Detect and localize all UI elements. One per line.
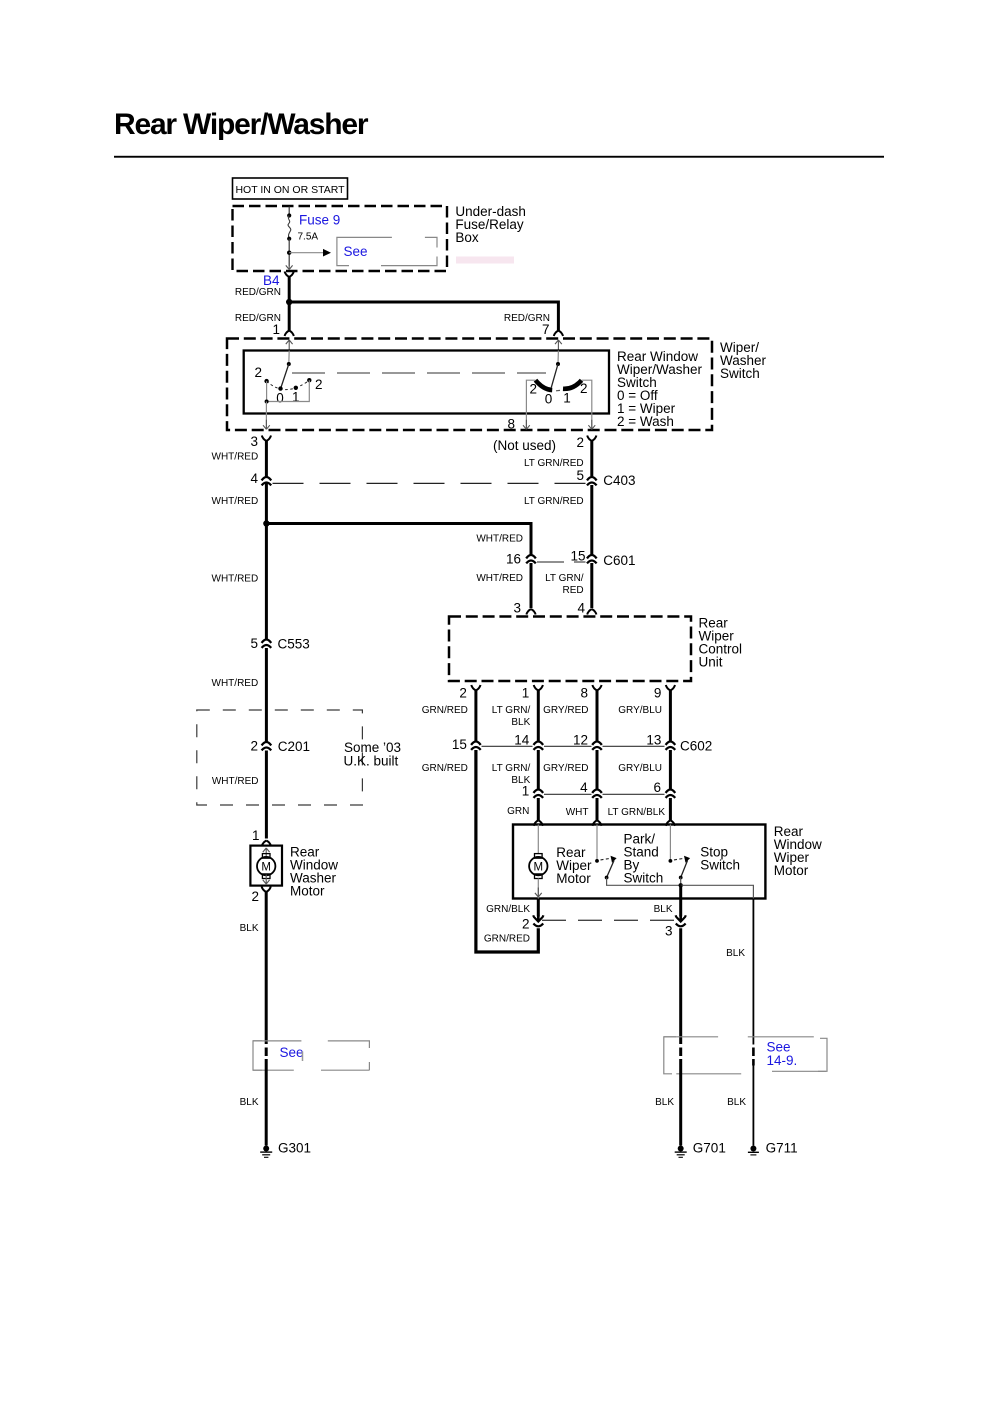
svg-text:WHT/RED: WHT/RED (476, 573, 523, 584)
entry horns control pin 3 (526, 609, 535, 615)
ground G711 (748, 1146, 759, 1155)
switch inner box (244, 351, 609, 414)
C403 dashed joint line (273, 482, 587, 484)
ground G701 (675, 1146, 687, 1158)
svg-text:C201: C201 (278, 739, 310, 754)
wire RED/GRN: B4 down to junction (288, 277, 291, 303)
svg-text:14: 14 (514, 733, 530, 748)
rear window washer motor box (250, 846, 282, 886)
wire GRN/RED C602 down (476, 750, 538, 952)
wire BLK washer motor to ground (265, 891, 268, 1044)
Some '03 UK dashed box (197, 710, 363, 805)
wire GRY/RED pin8 to C602 (596, 690, 599, 741)
svg-text:1: 1 (522, 686, 530, 701)
svg-text:1: 1 (272, 322, 280, 337)
wire GRN/RED pin2 to C602 (474, 690, 477, 741)
wire BLK dashed through see box (265, 1048, 268, 1066)
wiper contact arc left (thick) (536, 380, 553, 390)
svg-text:15: 15 (452, 737, 467, 752)
svg-text:Switch: Switch (720, 366, 760, 381)
svg-text:LT GRN/BLK: LT GRN/BLK (608, 807, 666, 818)
entry arrow pin 7 (555, 340, 562, 350)
svg-text:8: 8 (580, 686, 588, 701)
wiper motor M2 symbol (535, 854, 543, 859)
connector arrow out of fuse box (286, 260, 293, 270)
svg-text:Box: Box (455, 230, 479, 245)
wire GRY/RED C602 down (596, 750, 599, 792)
fuse F9 top terminal dot (287, 213, 291, 217)
svg-text:GRY/BLU: GRY/BLU (618, 705, 662, 716)
wire GRN to motor (537, 798, 540, 820)
wire BLK right branch to G711 (752, 899, 754, 1045)
svg-text:GRY/RED: GRY/RED (543, 705, 588, 716)
washer switch contact arc (dashed) (267, 380, 310, 389)
grey fragment (302, 1052, 304, 1062)
svg-text:M: M (261, 861, 271, 873)
stop switch output wire (680, 878, 682, 886)
wire: fuse to B4 (288, 239, 290, 267)
svg-text:GRY/BLU: GRY/BLU (618, 763, 662, 774)
wire WHT/RED C601 to control unit pin 3 (530, 563, 533, 608)
wire GRY/BLU pin9 to C602 (669, 690, 672, 741)
wire BLK dashed through see box (G701) (679, 1048, 682, 1066)
connector pair 3 (motor) (676, 915, 686, 926)
washer contact 0 dot (278, 386, 282, 390)
entry horns control pin 4 (587, 609, 596, 615)
connector horns pin 7 (554, 331, 563, 337)
exit horns washer motor pin 2 (262, 887, 271, 893)
wire LT GRN/BLK to stop switch (669, 798, 672, 820)
wiper switch pivot dot (556, 362, 560, 366)
svg-text:BLK: BLK (727, 1097, 746, 1108)
svg-text:WHT: WHT (566, 807, 589, 818)
svg-text:15: 15 (570, 549, 585, 564)
svg-text:2: 2 (580, 381, 588, 396)
svg-text:0: 0 (545, 392, 553, 407)
wire WHT/RED C201 to washer motor (265, 751, 268, 839)
rear window wiper motor box (513, 825, 765, 899)
svg-text:RED: RED (562, 585, 583, 596)
svg-text:2: 2 (251, 889, 259, 904)
title rule (114, 156, 884, 158)
svg-text:GRN/RED: GRN/RED (422, 705, 468, 716)
svg-text:WHT/RED: WHT/RED (212, 574, 259, 585)
washer contact 2 left dot (264, 379, 268, 383)
svg-text:1: 1 (522, 784, 530, 799)
wire LT GRN/BLK C602 to motor connector (537, 750, 540, 792)
wire LT GRN/RED C403 to C601 (590, 485, 593, 555)
washer motor internal arrow bottom (263, 875, 270, 885)
svg-text:C602: C602 (680, 739, 712, 754)
svg-text:2: 2 (254, 365, 262, 380)
wire LT GRN/RED C601 to control unit pin 4 (590, 563, 593, 608)
svg-text:C601: C601 (603, 553, 635, 568)
svg-text:4: 4 (580, 780, 588, 795)
svg-text:4: 4 (250, 471, 258, 486)
junction node dot (286, 299, 292, 305)
C601 joint line (537, 561, 586, 563)
wire to right exit (681, 885, 754, 898)
C602 joint lines (482, 745, 665, 747)
svg-text:Fuse 9: Fuse 9 (299, 213, 340, 228)
wire LT GRN/RED pin2 to C403 (590, 441, 593, 477)
svg-text:See: See (344, 244, 368, 259)
connector C601 left chevrons (526, 555, 536, 564)
wiper/washer switch outer dashed box (227, 339, 712, 431)
exit arrow pin 2 (588, 420, 595, 430)
svg-text:LT GRN/: LT GRN/ (545, 573, 584, 584)
wire WHT/RED branch to control unit pin 3 (266, 524, 531, 555)
svg-text:2: 2 (529, 382, 537, 397)
svg-text:U.K. built: U.K. built (344, 754, 399, 769)
connector C403 right chevrons (587, 477, 597, 486)
washer motor internal arrow top (263, 848, 270, 858)
wiper switch feed wire (557, 351, 559, 365)
svg-text:BLK: BLK (654, 904, 673, 915)
svg-text:GRN: GRN (507, 806, 529, 817)
wire BLK chevron 3 to G701 (679, 928, 682, 1044)
svg-text:HOT IN ON OR START: HOT IN ON OR START (235, 184, 345, 196)
svg-text:G301: G301 (278, 1141, 311, 1156)
wire BLK below box to chevron 3 (679, 885, 682, 916)
svg-text:2 = Wash: 2 = Wash (617, 414, 674, 429)
wiper contact arc right (thick) (563, 380, 582, 389)
junction dot left column (263, 520, 269, 526)
svg-text:3: 3 (250, 434, 258, 449)
svg-text:GRN/BLK: GRN/BLK (486, 904, 530, 915)
svg-text:12: 12 (573, 733, 588, 748)
svg-text:RED/GRN: RED/GRN (235, 287, 281, 298)
wire RED/GRN: junction to pin 1 (288, 302, 291, 331)
wire WHT/RED C553 to C201 (265, 648, 268, 742)
svg-text:Motor: Motor (290, 884, 325, 899)
svg-text:1: 1 (563, 391, 571, 406)
svg-text:M: M (534, 861, 544, 873)
wire GRY/BLU C602 down (669, 750, 672, 792)
wiper switch arm (551, 364, 558, 387)
svg-text:Motor: Motor (556, 871, 591, 886)
connector horns pin 2 out (587, 436, 596, 442)
svg-text:B4: B4 (263, 273, 280, 288)
see ground box G301 (grey partial) (253, 1041, 369, 1070)
svg-text:Motor: Motor (774, 863, 809, 878)
svg-text:LT GRN/: LT GRN/ (492, 705, 531, 716)
washer contact 2 right dot (307, 378, 311, 382)
svg-text:C553: C553 (278, 637, 310, 652)
svg-text:G701: G701 (693, 1141, 726, 1156)
wire WHT/RED pin3 to C403 (265, 441, 268, 524)
svg-text:C403: C403 (603, 473, 635, 488)
mechanical link dashed line (292, 372, 546, 374)
svg-text:16: 16 (506, 552, 521, 567)
See reference box (grey partial) (337, 237, 437, 265)
svg-text:WHT/RED: WHT/RED (212, 496, 259, 507)
svg-text:1: 1 (252, 828, 260, 843)
under-dash fuse/relay box (dashed) (233, 206, 448, 271)
svg-text:WHT/RED: WHT/RED (212, 776, 259, 787)
svg-text:2: 2 (250, 739, 258, 754)
exit horns control pin 2 (471, 685, 480, 691)
entry horns washer motor pin 1 (262, 841, 271, 847)
svg-text:Switch: Switch (700, 858, 740, 873)
entry arrow pin 1 (286, 340, 293, 350)
connector C403 left chevrons (262, 477, 272, 486)
svg-text:WHT/RED: WHT/RED (476, 534, 523, 545)
park switch output wire (607, 878, 681, 886)
wire: fuse feed inside box (288, 207, 290, 216)
wire pin 3 inside box (265, 402, 267, 430)
svg-text:LT GRN/RED: LT GRN/RED (524, 496, 584, 507)
svg-text:Switch: Switch (624, 871, 664, 886)
see ground box G701/G711 (grey partial) (664, 1037, 827, 1074)
wire: arrow to See reference (289, 252, 323, 254)
svg-text:0: 0 (276, 391, 284, 406)
svg-text:13: 13 (646, 733, 661, 748)
exit horns control pin 9 (666, 685, 675, 691)
svg-text:5: 5 (576, 468, 584, 483)
svg-text:GRN/RED: GRN/RED (484, 934, 530, 945)
fuse 9 element (squiggle) (288, 216, 291, 239)
stop switch S2 (669, 825, 671, 861)
dashed joint line motor connector (542, 919, 676, 921)
wire RED/GRN: junction across to pin 7 (289, 302, 558, 331)
exit arrow pin 8 (523, 420, 530, 430)
svg-text:2: 2 (459, 686, 467, 701)
svg-text:4: 4 (577, 601, 585, 616)
wire LT GRN/BLK pin1 to C602 (537, 690, 540, 741)
svg-text:WHT/RED: WHT/RED (212, 452, 259, 463)
svg-text:9: 9 (654, 686, 662, 701)
svg-text:Unit: Unit (699, 655, 723, 670)
joint lines (544, 793, 665, 795)
svg-text:BLK: BLK (655, 1097, 674, 1108)
washer switch feed wire (288, 351, 290, 365)
washer contact 1 dot (294, 386, 298, 390)
wiper motor M2 feed wire (537, 825, 539, 854)
washer switch arm (281, 364, 289, 388)
svg-text:2: 2 (315, 377, 323, 392)
connector horns B4 (285, 272, 294, 278)
svg-text:BLK: BLK (726, 948, 745, 959)
wiper motor ground wire inside box (537, 879, 539, 899)
svg-text:7.5A: 7.5A (298, 232, 319, 243)
svg-text:BLK: BLK (240, 923, 259, 934)
washer switch pivot dot (287, 362, 291, 366)
svg-text:8: 8 (507, 417, 515, 432)
svg-text:GRN/RED: GRN/RED (422, 763, 468, 774)
park/stand by switch S1 (596, 825, 598, 861)
svg-text:7: 7 (542, 322, 550, 337)
junction dot at fuse output (287, 251, 291, 255)
connector C601 right chevrons (587, 555, 597, 564)
junction dot washer output (265, 400, 269, 404)
svg-text:WHT/RED: WHT/RED (212, 678, 259, 689)
wire WHT to park switch (596, 798, 599, 820)
connector horns pin 3 out (262, 436, 271, 442)
svg-text:LT GRN/: LT GRN/ (492, 763, 531, 774)
rear wiper control unit dashed box (449, 617, 691, 682)
wiper stub wires to pins 8 and 2 (526, 380, 591, 429)
svg-text:2: 2 (522, 916, 530, 931)
svg-text:3: 3 (665, 923, 673, 938)
HOT IN ON OR START box (233, 178, 348, 199)
washer output wires U-shape (267, 380, 310, 401)
wire WHT/RED junction to washer motor (265, 524, 268, 640)
svg-text:G711: G711 (766, 1141, 798, 1156)
ground G301 (260, 1146, 272, 1158)
svg-text:BLK: BLK (240, 1097, 259, 1108)
connector horns pin 1 (285, 331, 294, 337)
fuse F9 bottom terminal dot (287, 237, 291, 241)
svg-text:2: 2 (576, 435, 584, 450)
wire GRN/BLK motor to chevron 2 (537, 899, 540, 917)
svg-text:1: 1 (292, 390, 300, 405)
exit arrow pin 3 (263, 420, 270, 430)
washer motor M1 symbol (262, 854, 270, 859)
wire BLK dashed through see box (G711) (752, 1048, 755, 1066)
svg-text:3: 3 (513, 601, 521, 616)
wiper contact small mark (556, 389, 560, 391)
exit horns control pin 1 (534, 685, 543, 691)
svg-text:GRY/RED: GRY/RED (543, 763, 588, 774)
ghost text artifact (456, 257, 514, 264)
svg-text:(Not used): (Not used) (493, 438, 556, 453)
svg-text:BLK: BLK (511, 717, 530, 728)
exit horns control pin 8 (592, 685, 601, 691)
svg-text:LT GRN/RED: LT GRN/RED (524, 458, 584, 469)
connector pair 2 (motor) (533, 915, 543, 926)
svg-text:Rear Wiper/Washer: Rear Wiper/Washer (114, 108, 369, 141)
svg-text:5: 5 (250, 636, 258, 651)
svg-text:6: 6 (653, 780, 661, 795)
node: common ground junction (679, 883, 683, 887)
svg-text:See: See (280, 1045, 304, 1060)
svg-text:14-9.: 14-9. (767, 1053, 798, 1068)
entry horns wiper motor pins (534, 820, 543, 826)
